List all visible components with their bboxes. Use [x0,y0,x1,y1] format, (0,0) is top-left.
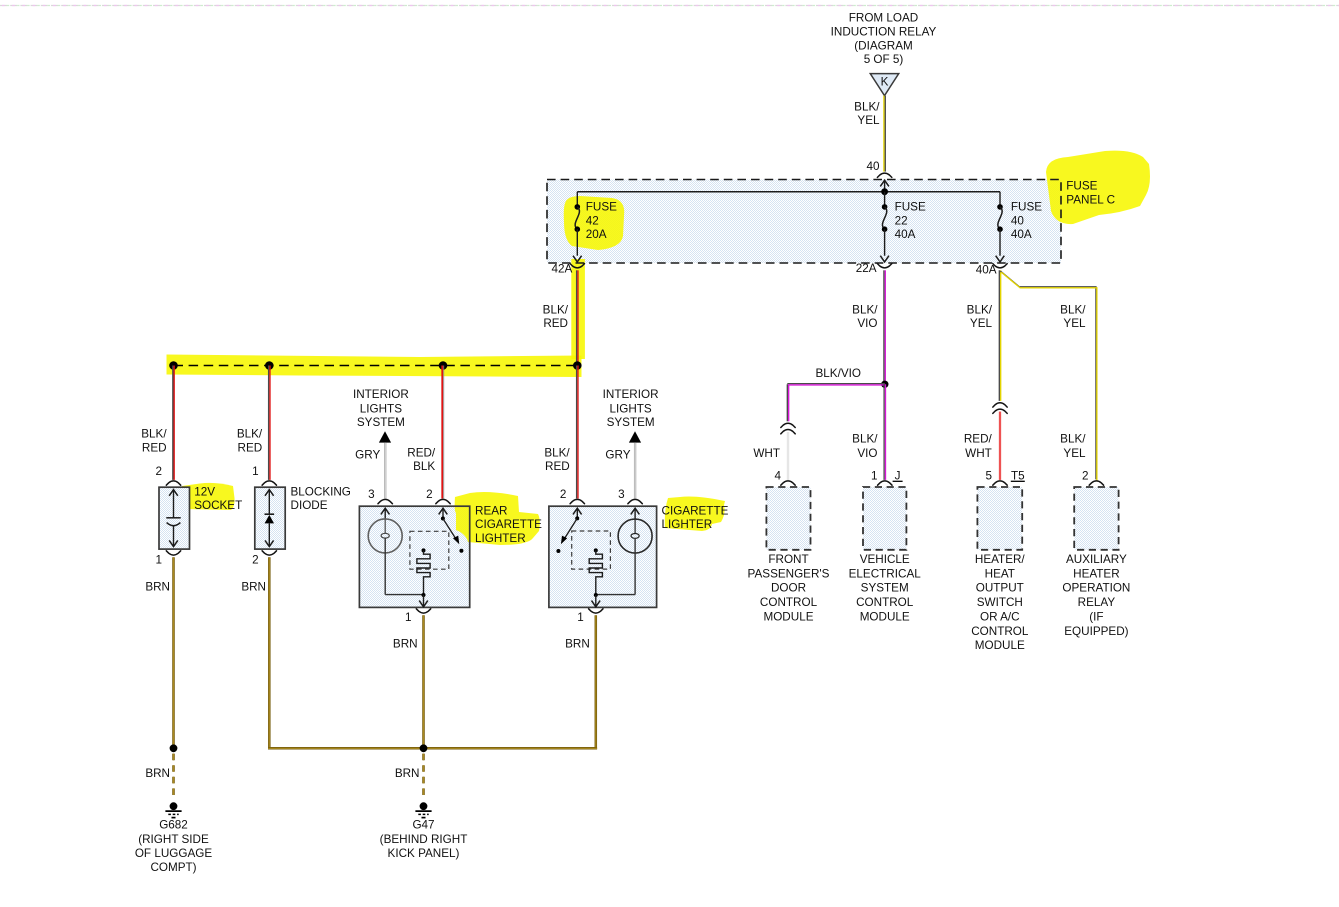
svg-text:BLK/: BLK/ [852,304,878,317]
svg-text:T5: T5 [1011,470,1025,483]
svg-text:CONTROL: CONTROL [856,596,914,609]
svg-text:GRY: GRY [605,448,630,461]
svg-text:INTERIOR: INTERIOR [353,388,409,401]
diode D1 symbol [265,490,274,496]
svg-text:EQUIPPED): EQUIPPED) [1064,625,1128,638]
svg-text:MODULE: MODULE [860,610,910,623]
rear lighter pin 1 exit arrow [423,595,425,607]
connector 22A at panel exit [877,264,891,268]
rear lighter pin 3 entry arrow [381,508,390,514]
connector at rear lighter pin 1 [416,609,430,613]
highlight over 12V SOCKET label [182,483,235,510]
splice node B [265,361,274,370]
wire BLK/RED from splice to lighter pin 2 [576,366,578,499]
fuse panel C dashed border [547,180,1061,264]
svg-text:BLOCKING: BLOCKING [291,485,351,498]
svg-text:22A: 22A [856,262,877,275]
svg-text:BLK/: BLK/ [544,447,570,460]
wire BRN from lighter down to bottom run [595,615,598,747]
svg-text:RED: RED [545,460,570,473]
svg-text:1: 1 [871,470,878,483]
rear lighter heating element dashed enclosure [410,531,449,569]
svg-text:LIGHTS: LIGHTS [360,402,402,415]
svg-text:LIGHTS: LIGHTS [609,402,651,415]
svg-text:BLK/: BLK/ [852,433,878,446]
svg-text:1: 1 [405,611,412,624]
svg-text:2: 2 [1082,470,1089,483]
junction node on panel bus [881,188,888,195]
ground G47 [420,802,428,810]
wire BLK/RED to 12V socket pin 2 [172,366,174,480]
svg-text:FUSE: FUSE [586,201,617,214]
inline connector on heater branch [993,403,1007,407]
connector at fuse panel pin 40 [877,173,891,177]
wire BLK/YEL from relay K to fuse panel [883,96,885,172]
wire BRN bottom run to G47 splice [268,747,597,750]
blocking diode body [255,487,285,549]
fuse 42 20A [576,192,578,207]
svg-text:FUSE: FUSE [1066,180,1097,193]
wire BRN from diode to ground splice [268,557,271,747]
svg-text:YEL: YEL [970,317,993,330]
svg-text:REAR: REAR [475,505,507,518]
svg-text:RED/: RED/ [407,447,436,460]
highlight over FUSE PANEL C label [1046,151,1150,224]
dashed BRN wire to G682 [172,754,175,800]
svg-text:OPERATION: OPERATION [1062,582,1130,595]
pin 40 entry arrow [880,180,889,186]
wire BLK/RED from 42A to splice bus [576,270,578,365]
svg-text:42: 42 [586,214,599,227]
svg-text:INDUCTION RELAY: INDUCTION RELAY [831,26,937,39]
connector at socket pin 2 [166,481,180,485]
svg-text:2: 2 [426,488,433,501]
svg-text:SYSTEM: SYSTEM [607,416,655,429]
svg-text:OR A/C: OR A/C [980,610,1020,623]
svg-text:(RIGHT SIDE: (RIGHT SIDE [138,833,209,846]
wire RED/WHT to heater module pin 5 [999,412,1001,480]
svg-text:40: 40 [1011,214,1025,227]
connector at diode pin 2 [262,551,276,555]
svg-text:CIGARETTE: CIGARETTE [662,505,729,518]
lighter lamp return wire [596,594,635,596]
svg-text:2: 2 [560,488,567,501]
svg-text:BLK/: BLK/ [1060,304,1086,317]
svg-text:1: 1 [155,553,162,566]
wire BRN from socket to ground splice [172,557,175,748]
svg-text:YEL: YEL [1063,447,1086,460]
svg-text:2: 2 [252,553,259,566]
svg-text:40A: 40A [895,228,916,241]
svg-text:BRN: BRN [145,581,170,594]
svg-text:20A: 20A [586,228,607,241]
wire BLK/VIO horizontal to door module branch [787,383,885,385]
svg-text:HEATER: HEATER [1073,567,1120,580]
svg-text:BLK/: BLK/ [141,427,167,440]
svg-text:WHT: WHT [965,447,992,460]
svg-text:OUTPUT: OUTPUT [976,582,1024,595]
module box 3 fill [977,487,1022,550]
svg-text:RED/: RED/ [964,433,993,446]
svg-text:40A: 40A [1011,228,1032,241]
svg-text:LIGHTER: LIGHTER [662,518,713,531]
svg-text:BLK/: BLK/ [237,427,263,440]
rear lighter heating element [422,548,426,552]
rear lighter switch [439,508,448,514]
svg-text:VEHICLE: VEHICLE [860,553,910,566]
wire BLK/YEL from 40A down to inline connector [998,270,1000,401]
auxiliary heater operation relay box [1074,487,1118,550]
svg-text:AUXILIARY: AUXILIARY [1066,553,1127,566]
svg-text:BRN: BRN [241,581,266,594]
vehicle electrical system control module box [863,487,906,550]
rear lighter internal junction node [422,593,426,597]
12V socket body [159,487,190,549]
svg-text:CONTROL: CONTROL [760,596,818,609]
off-page arrow to interior lights system (rear) [379,431,391,442]
svg-text:12V: 12V [194,485,215,498]
svg-text:GRY: GRY [355,448,380,461]
svg-text:J: J [895,470,901,483]
svg-text:1: 1 [252,465,259,478]
lighter illumination lamp [618,519,652,553]
svg-text:BLK/: BLK/ [1060,433,1086,446]
module box 2 fill [863,487,906,550]
svg-text:40: 40 [866,160,880,173]
svg-text:DIODE: DIODE [291,499,328,512]
svg-text:WHT: WHT [753,447,780,460]
svg-text:BLK/: BLK/ [967,304,993,317]
cigarette lighter body [549,506,657,607]
lighter pin 1 exit arrow [595,595,597,607]
fuse 22 40A [884,192,886,207]
connector at door module pin 4 [781,481,795,485]
connector at rear lighter pin 2 [436,499,450,503]
highlight over dashed bus wire [167,355,582,378]
svg-text:HEATER/: HEATER/ [975,553,1026,566]
rear cigarette lighter body fill [359,506,469,607]
svg-text:G682: G682 [159,819,188,832]
connector at lighter pin 1 [589,609,603,613]
svg-text:CONTROL: CONTROL [971,625,1029,638]
svg-text:5: 5 [985,470,992,483]
cigarette lighter body fill [549,506,657,607]
svg-text:FRONT: FRONT [768,553,808,566]
svg-text:KICK PANEL): KICK PANEL) [388,847,460,860]
svg-text:RELAY: RELAY [1078,596,1116,609]
splice node D [573,361,582,370]
svg-text:COMPT): COMPT) [150,861,196,874]
svg-text:FROM LOAD: FROM LOAD [849,12,918,25]
fuse panel C body [547,180,1061,264]
connector at socket pin 1 [166,551,180,555]
splice node C [439,361,448,370]
svg-text:BLK/VIO: BLK/VIO [816,367,861,380]
off-page connector K triangle [870,74,898,96]
splice node A [169,361,178,370]
svg-text:BRN: BRN [393,638,418,651]
connector at vehicle module pin 1 [878,481,892,485]
wire WHT to door module pin 4 [787,432,789,480]
svg-text:G47: G47 [412,819,434,832]
svg-text:INTERIOR: INTERIOR [603,388,659,401]
svg-text:SYSTEM: SYSTEM [861,582,909,595]
svg-text:YEL: YEL [1063,317,1086,330]
connector at lighter pin 2 [570,499,584,503]
svg-text:MODULE: MODULE [975,639,1025,652]
wire GRY to rear lighter pin 3 [384,443,386,499]
lighter heating element [594,548,598,552]
svg-text:BRN: BRN [395,767,420,780]
lighter pin 3 entry arrow [631,508,640,514]
svg-text:BRN: BRN [565,638,590,651]
highlight over REAR CIGARETTE LIGHTER label [455,492,540,545]
rear lighter lamp return wire [385,594,423,596]
heater/heat output switch or A/C control module box [977,487,1022,550]
svg-text:1: 1 [577,611,584,624]
svg-text:BRN: BRN [145,767,170,780]
wire BLK/YEL branch to auxiliary relay [1000,271,1096,479]
connector at diode pin 1 [262,481,276,485]
lighter heating element dashed enclosure [572,531,611,569]
rear cigarette lighter body [359,506,469,607]
connector at lighter pin 3 [628,499,642,503]
svg-text:VIO: VIO [857,317,877,330]
lighter internal junction node [594,593,598,597]
socket internal contact arrows and plates [169,490,178,496]
connector at rear lighter pin 3 [378,499,392,503]
splice node on BRN (G682) [170,744,178,752]
svg-text:SWITCH: SWITCH [977,596,1023,609]
svg-text:3: 3 [618,488,625,501]
svg-text:2: 2 [155,465,162,478]
svg-text:LIGHTER: LIGHTER [475,532,526,545]
svg-text:MODULE: MODULE [763,610,813,623]
svg-text:DOOR: DOOR [771,582,806,595]
svg-text:SYSTEM: SYSTEM [357,416,405,429]
svg-text:RED: RED [543,317,568,330]
svg-text:RED: RED [238,442,263,455]
highlight over FUSE 42 [564,196,625,250]
svg-text:BLK/: BLK/ [854,101,880,114]
splice node on BLK/VIO [881,381,888,388]
svg-text:5 OF 5): 5 OF 5) [864,53,904,66]
svg-text:FUSE: FUSE [895,201,926,214]
svg-text:CIGARETTE: CIGARETTE [475,518,542,531]
svg-text:4: 4 [774,470,781,483]
rear lighter illumination lamp [368,519,402,553]
svg-text:FUSE: FUSE [1011,201,1042,214]
page boundary dashed line [0,5,1339,7]
svg-text:HEAT: HEAT [985,567,1015,580]
svg-text:SOCKET: SOCKET [194,499,242,512]
wire BLK/VIO down to inline connector [786,384,788,421]
wire BLK/VIO to vehicle module pin 1 [883,384,885,480]
svg-text:YEL: YEL [857,114,880,127]
inline connector on door module branch [781,423,795,427]
svg-text:OF LUGGAGE: OF LUGGAGE [135,847,212,860]
connector 40A at panel exit [993,264,1007,268]
wire RED/BLK from splice to rear lighter pin 2 [441,366,443,499]
svg-text:RED: RED [142,442,167,455]
front passenger's door control module box [766,487,810,550]
svg-text:PASSENGER'S: PASSENGER'S [748,567,830,580]
dashed BRN wire to G47 [422,754,425,800]
svg-text:40A: 40A [976,263,997,276]
svg-text:3: 3 [368,488,375,501]
svg-text:K: K [881,76,889,89]
fuse 40 40A [999,192,1001,207]
svg-text:VIO: VIO [857,447,877,460]
wire BLK/RED to blocking diode pin 1 [268,366,270,480]
highlight over 42A wire [571,259,585,359]
wire BLK/VIO from 22A to splice [883,270,885,384]
bus wire inside fuse panel [577,191,1000,193]
highlight over CIGARETTE LIGHTER label [665,497,725,532]
svg-text:ELECTRICAL: ELECTRICAL [849,567,922,580]
svg-text:BLK: BLK [413,460,435,473]
connector 42A at panel exit [570,264,584,268]
svg-text:22: 22 [895,214,908,227]
wire GRY to lighter pin 3 [634,443,636,499]
svg-text:(IF: (IF [1089,610,1103,623]
ground G682 [170,802,178,810]
svg-text:(BEHIND RIGHT: (BEHIND RIGHT [380,833,468,846]
svg-text:(DIAGRAM: (DIAGRAM [854,39,912,52]
connector at aux relay pin 2 [1089,481,1103,485]
svg-text:PANEL C: PANEL C [1066,194,1115,207]
module box 4 fill [1074,487,1118,550]
splice node G47 [420,744,428,752]
svg-text:BLK/: BLK/ [543,304,569,317]
lighter switch [573,508,582,514]
wire BRN from rear lighter to G47 splice [422,615,425,748]
connector at heater module pin 5 [993,481,1007,485]
dashed splice bus wire [174,365,578,367]
module box 1 fill [766,487,810,550]
svg-text:42A: 42A [552,262,573,275]
off-page arrow to interior lights system (front) [629,431,641,442]
